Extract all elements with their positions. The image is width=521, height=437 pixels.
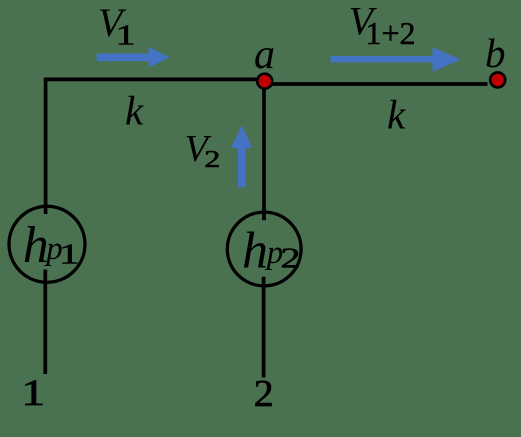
svg-text:b: b [485, 30, 506, 76]
terminal label 1 [21, 373, 45, 414]
source hp2: circle symbol [227, 212, 301, 286]
svg-text:h: h [242, 222, 268, 279]
wire: left vertical upper segment (corner to source hp1) [44, 78, 48, 214]
wire: middle vertical upper segment (node a to source hp2) [262, 82, 266, 220]
terminal label 2 [254, 373, 274, 415]
arrow V1+2: blue flow arrow over right segment [330, 47, 460, 71]
svg-text:h: h [23, 217, 49, 274]
source hp1: label subscript 1 [59, 238, 80, 270]
svg-text:1+2: 1+2 [366, 15, 416, 51]
arrow V2: blue upward flow arrow into node a [231, 125, 252, 187]
svg-text:1: 1 [115, 19, 135, 51]
node b: red terminal dot [490, 72, 505, 87]
svg-text:1: 1 [59, 238, 80, 270]
svg-text:2: 2 [280, 242, 300, 274]
svg-text:1: 1 [21, 373, 45, 414]
wire: middle vertical lower segment (source hp2 to terminal 2) [262, 277, 266, 378]
node a: red junction dot [257, 74, 272, 89]
arrow V1: blue flow arrow over left segment [97, 47, 170, 68]
svg-text:k: k [387, 92, 406, 138]
source hp2: label subscript 2 [280, 242, 300, 274]
svg-text:a: a [254, 32, 275, 78]
svg-text:k: k [125, 88, 144, 134]
svg-text:2: 2 [254, 373, 274, 415]
svg-text:2: 2 [204, 147, 220, 173]
source hp1: circle symbol [9, 206, 85, 282]
wire: top horizontal left segment (corner to node a) [44, 78, 265, 82]
wire: top horizontal right segment (node a to node b) [265, 82, 488, 86]
wire: left vertical lower segment (source hp1 to terminal 1) [43, 270, 47, 375]
